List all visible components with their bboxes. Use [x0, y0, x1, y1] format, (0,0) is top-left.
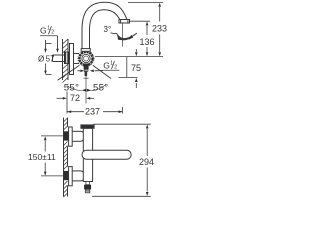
75 dimension — [135, 49, 137, 52]
G 1/2 label top-left — [40, 26, 54, 36]
svg-text:Ø 57: Ø 57 — [38, 54, 55, 63]
hatching — [64, 118, 68, 197]
150 +/- 11 dimension — [41, 136, 64, 176]
outlet extension line — [130, 20, 151, 22]
svg-text:2: 2 — [51, 30, 54, 36]
right dimension column — [95, 3, 163, 89]
svg-text:3°: 3° — [104, 25, 112, 34]
bottom union — [64, 171, 69, 180]
294 dimension — [92, 124, 151, 196]
union nut on wall (dark) — [64, 52, 70, 65]
svg-text:136: 136 — [140, 37, 155, 47]
spout arc (outer + inner) — [82, 2, 127, 30]
svg-text:55°: 55° — [64, 82, 79, 93]
axis extension line — [95, 56, 163, 58]
wall hatching (top view) — [63, 39, 69, 83]
136 dimension line — [146, 26, 148, 35]
spout pill — [82, 150, 131, 159]
55 degree rays — [58, 65, 112, 94]
wall band — [63, 118, 65, 197]
diameter 57 dimension — [44, 44, 51, 75]
wall section band (top view) — [63, 39, 69, 80]
G 1/2 label (second, shower outlet) — [103, 61, 117, 71]
arc wings + arrowheads — [67, 86, 82, 91]
neck — [74, 54, 80, 64]
tube collar — [81, 49, 90, 52]
top extension line (spout top) — [128, 2, 163, 4]
svg-text:72: 72 — [70, 93, 80, 103]
svg-text:294: 294 — [139, 157, 154, 167]
top union: nut + plate + cone — [64, 131, 69, 140]
spout vertical tube — [82, 30, 90, 52]
svg-text:150±11: 150±11 — [28, 152, 56, 162]
cap band (dark) — [81, 125, 94, 128]
svg-text:233: 233 — [152, 24, 167, 34]
shower outlet below — [86, 182, 90, 185]
outlet centerline — [122, 23, 124, 47]
diverter parts below valve (dark) — [84, 64, 89, 70]
svg-text:G: G — [40, 26, 47, 36]
escutcheon flange — [70, 44, 74, 75]
supply stub pipe — [53, 55, 65, 62]
svg-text:75: 75 — [131, 63, 141, 73]
svg-text:55°: 55° — [93, 82, 108, 93]
72 dimension — [57, 92, 94, 114]
body — [83, 128, 92, 181]
outlet block — [119, 20, 130, 24]
valve body circle (knurled) — [79, 52, 92, 65]
233 dimension line — [159, 7, 161, 22]
svg-text:237: 237 — [85, 107, 100, 117]
centerline below vertex — [85, 68, 87, 95]
svg-text:2: 2 — [114, 65, 117, 71]
svg-text:G: G — [103, 61, 110, 71]
237 dimension — [67, 107, 123, 114]
